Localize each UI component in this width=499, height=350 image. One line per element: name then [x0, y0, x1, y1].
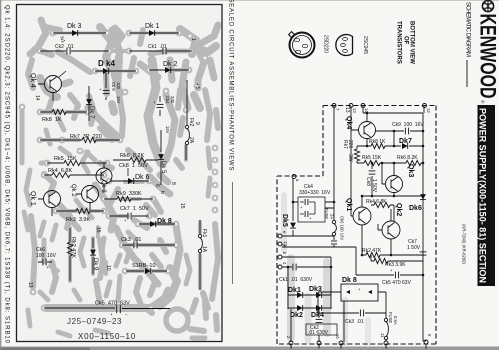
capacitor Ck2 (schematic): [316, 318, 323, 320]
rail y196: [362, 195, 423, 197]
svg-text:D k4: D k4: [98, 59, 115, 68]
scan edge line top: [0, 0, 499, 2]
svg-text:9: 9: [194, 122, 200, 125]
terminal 13: [349, 104, 353, 108]
svg-text:330+330 16V: 330+330 16V: [299, 190, 331, 196]
svg-text:Dk 3: Dk 3: [67, 23, 82, 30]
diode S1RB-10 (pcb): [126, 270, 167, 272]
wire pad7 bus: [333, 106, 335, 247]
svg-text:Rk2 47K: Rk2 47K: [70, 237, 76, 258]
terminal a: [292, 175, 296, 179]
resistor Rk2 (pcb): [69, 228, 71, 281]
transistor outline 2SC945 bottom view: [336, 35, 368, 56]
board boundary dashed: [277, 106, 436, 345]
svg-text:Dk 5: Dk 5: [160, 161, 166, 174]
rectifier Dk8 (schematic): [341, 284, 378, 301]
diode Dk6 (pcb): [110, 180, 149, 182]
svg-text:14: 14: [34, 95, 40, 101]
svg-text:Qk 1,4: 2SD220, Qk2,3: 2SC945: Qk 1,4: 2SD220, Qk2,3: 2SC945 (Q), Dk1~4…: [4, 5, 10, 344]
capacitor Ck5 (schematic): [356, 274, 423, 276]
resistor Rk4 (pcb): [44, 174, 104, 176]
pcb board outline: [17, 5, 223, 342]
wire Ck4 links: [293, 202, 334, 208]
svg-text:Dk 2: Dk 2: [163, 61, 178, 68]
svg-text:Rk5 15K: Rk5 15K: [362, 155, 382, 161]
svg-text:2SD220: 2SD220: [323, 35, 329, 53]
svg-text:S1RB–10: S1RB–10: [132, 263, 156, 269]
diode Dk7 (schematic): [394, 145, 423, 147]
svg-text:Ck 9: Ck 9: [111, 82, 116, 91]
pcb scan tint: [17, 5, 222, 341]
svg-text:220: 220: [347, 140, 353, 149]
svg-text:Rk8 1K: Rk8 1K: [42, 117, 62, 123]
transistor Qk1 (schematic): [353, 207, 371, 225]
svg-text:Qk1: Qk1: [345, 198, 352, 211]
capacitor Ck2: [66, 48, 68, 55]
svg-text:16V: 16V: [165, 126, 170, 134]
svg-text:KENWOOD: KENWOOD: [475, 14, 499, 99]
svg-text:1A: 1A: [201, 246, 207, 253]
svg-text:13: 13: [27, 282, 33, 288]
resistor Rk8 (schematic): [357, 145, 394, 147]
svg-text:Qk 2: Qk 2: [70, 184, 76, 197]
svg-text:3W: 3W: [347, 154, 353, 162]
terminal b: [278, 255, 282, 259]
svg-text:Ck3 .01: Ck3 .01: [121, 237, 141, 243]
svg-text:10: 10: [335, 334, 340, 339]
resistor Rk7 (pcb): [40, 139, 120, 141]
wire b rail: [282, 257, 331, 267]
svg-text:Dk4: Dk4: [311, 312, 324, 319]
wire Ck2 row: [40, 50, 109, 52]
capacitor Ck1 (schematic): [292, 264, 294, 271]
svg-text:J25–0749–23: J25–0749–23: [67, 317, 122, 326]
capacitor Ck5 (pcb): [44, 307, 170, 310]
resistor Rk3 (schematic): [371, 255, 423, 261]
transistor Qk3 (pcb): [96, 168, 112, 184]
svg-text:Qk 4: Qk 4: [29, 73, 36, 88]
svg-text:Qk3: Qk3: [407, 164, 414, 177]
diode Dk6 (schematic): [420, 194, 426, 200]
svg-text:330: 330: [170, 96, 175, 104]
svg-text:Qk 3: Qk 3: [100, 180, 106, 193]
svg-text:SEALED CIRCUIT ASSEMBLIES-PHAN: SEALED CIRCUIT ASSEMBLIES-PHANTOM VIEWS: [228, 0, 234, 171]
diode Dk1: [149, 30, 155, 36]
logo KENWOOD: [475, 0, 499, 104]
svg-text:Qk4: Qk4: [345, 116, 352, 129]
banner POWER SUPPLY(X00-1150-81) SECTION: [478, 105, 496, 286]
wire Dk4 row: [95, 70, 136, 72]
diode Dk4 (bridge): [316, 305, 322, 311]
wire Dk8 bottom: [343, 301, 345, 342]
svg-text:Rk7 3P 220: Rk7 3P 220: [70, 134, 102, 140]
transistor outline 2SD220 bottom view: [289, 32, 329, 58]
svg-text:100: 100: [116, 82, 121, 90]
svg-text:11: 11: [380, 333, 385, 338]
diode Dk5 (schematic): [290, 223, 296, 229]
svg-text:Dk5: Dk5: [281, 214, 288, 227]
svg-text:Ck9 100 16V: Ck9 100 16V: [392, 122, 424, 128]
svg-text:Rk6 8.2K: Rk6 8.2K: [397, 155, 418, 161]
resistor Rk4 (schematic): [371, 205, 394, 221]
svg-text:Ck6 100 16V: Ck6 100 16V: [340, 216, 345, 240]
wire Ck9-Dk7 link: [393, 131, 395, 146]
svg-text:Ck5 470 63V: Ck5 470 63V: [382, 280, 412, 286]
svg-text:Ck3 .01: Ck3 .01: [345, 319, 364, 325]
svg-text:b: b: [159, 191, 165, 194]
svg-text:0.5A: 0.5A: [393, 316, 398, 325]
fuse Fk2 (pcb): [186, 80, 187, 160]
svg-text:Ck8 1 50V: Ck8 1 50V: [119, 163, 148, 169]
svg-text:Dk2: Dk2: [290, 312, 303, 319]
svg-text:Dk 1: Dk 1: [145, 23, 160, 30]
resistor Rk5 (schematic): [364, 160, 380, 165]
svg-text:Rk2 47K: Rk2 47K: [362, 248, 382, 254]
terminal e: [278, 234, 282, 238]
svg-text:10: 10: [105, 265, 111, 271]
svg-text:X00–1150–10: X00–1150–10: [78, 332, 136, 341]
svg-text:Ck5 470 63V: Ck5 470 63V: [95, 301, 130, 307]
terminal 12: [423, 104, 427, 108]
diode Dk9 (pcb): [92, 238, 94, 274]
svg-text:1 50V: 1 50V: [371, 179, 377, 193]
diode Dk8 (pcb): [139, 223, 175, 225]
svg-text:1 50V: 1 50V: [407, 245, 421, 251]
wire Ck1 rail: [282, 266, 331, 268]
resistor Rk3 (pcb): [56, 210, 104, 212]
terminal 4: [278, 265, 282, 269]
capacitor Ck3 (pcb): [122, 244, 175, 246]
scan edge line left: [0, 0, 2, 350]
rail Rk5 Rk6: [357, 162, 423, 164]
terminal 14: [361, 104, 365, 108]
svg-text:Fk2: Fk2: [188, 118, 194, 127]
svg-text:Dk6: Dk6: [409, 205, 422, 212]
svg-text:Rk8 1K: Rk8 1K: [369, 139, 386, 145]
resistor Rk7 (schematic): [356, 146, 358, 163]
capacitor Ck7 (pcb): [109, 215, 149, 217]
diode Dk7 (pcb): [88, 86, 90, 121]
capacitor Ck8 (schematic): [371, 163, 373, 196]
svg-text:Ck2 .01: Ck2 .01: [55, 44, 74, 50]
svg-text:Ck4: Ck4: [165, 96, 170, 104]
svg-text:Rk6 8.2K: Rk6 8.2K: [120, 153, 144, 159]
svg-text:13: 13: [344, 107, 350, 113]
transistor Qk4 (schematic): [359, 122, 376, 139]
svg-text:16V: 16V: [116, 96, 121, 104]
diode Dk2 (bridge): [288, 307, 331, 309]
wire Dk8 left: [318, 292, 341, 313]
terminal g13: [278, 242, 282, 246]
svg-text:Dk 8: Dk 8: [342, 277, 357, 284]
wire top rail: [363, 106, 424, 113]
svg-text:+3: +3: [194, 83, 200, 89]
wire e rail: [282, 235, 334, 237]
pcb copper traces: [19, 20, 219, 338]
svg-text:TRANSISTORS: TRANSISTORS: [396, 21, 402, 64]
resistor Rk5 (pcb): [47, 162, 107, 164]
svg-text:16: 16: [95, 227, 101, 233]
svg-text:2SC945: 2SC945: [362, 36, 368, 54]
svg-text:.01 630V: .01 630V: [308, 330, 329, 336]
resistor Rk2 (schematic): [362, 254, 423, 256]
capacitor Ck1: [162, 48, 164, 55]
capacitor Ck9 (pcb): [105, 73, 107, 100]
wire Dk5 branch: [292, 178, 294, 236]
wire right bus: [423, 113, 426, 341]
terminal 7: [332, 104, 336, 108]
svg-text:2A: 2A: [330, 214, 335, 219]
svg-text:Rk3 3.9K: Rk3 3.9K: [66, 217, 90, 223]
fuse FUSE 0.5A (schematic): [384, 318, 387, 321]
resistor Rk6 (pcb): [113, 159, 158, 161]
svg-text:2A: 2A: [188, 137, 194, 144]
svg-text:Dk7: Dk7: [399, 138, 412, 145]
wire rail y247: [282, 247, 356, 275]
svg-text:Rk3 3.9K: Rk3 3.9K: [385, 262, 406, 268]
svg-text:SCHEMATIC DIAGRAM: SCHEMATIC DIAGRAM: [465, 2, 471, 57]
fuse Fk1 (pcb): [199, 220, 201, 290]
resistor Rk6 (schematic): [406, 160, 421, 165]
svg-text:Qk 1: Qk 1: [29, 191, 36, 206]
diode Dk2: [165, 67, 171, 73]
wire emitter Qk4: [366, 145, 369, 148]
diode Dk4: [103, 68, 109, 74]
wire Dk2 row: [149, 69, 189, 71]
svg-text:(KR-7200) (KR-6200): (KR-7200) (KR-6200): [462, 224, 467, 264]
bottom terminals: [289, 341, 293, 345]
wire Dk1 row: [129, 32, 179, 34]
svg-text:Ck1 .01 630V: Ck1 .01 630V: [279, 277, 313, 283]
wire Dk8 right: [378, 292, 386, 318]
svg-text:Rk5 15K: Rk5 15K: [54, 156, 77, 162]
svg-text:POWER SUPPLY(X00-1150- 81) SEC: POWER SUPPLY(X00-1150- 81) SECTION: [478, 108, 488, 283]
wire pad13 bus: [350, 106, 352, 216]
diode Dk3: [72, 30, 78, 36]
svg-text:Dk 9: Dk 9: [92, 258, 98, 271]
transistor Qk2 (schematic): [382, 221, 400, 239]
svg-text:12: 12: [426, 108, 431, 113]
svg-text:8: 8: [170, 182, 176, 185]
capacitor Ck4 (pcb): [159, 96, 161, 116]
diode Dk5 (pcb): [160, 130, 162, 185]
svg-text:1: 1: [190, 38, 196, 41]
svg-text:100 16V: 100 16V: [36, 253, 57, 259]
svg-text:Rk4 6.8K: Rk4 6.8K: [366, 199, 387, 205]
svg-text:Fk1: Fk1: [201, 229, 207, 238]
svg-text:Rk9 330K: Rk9 330K: [116, 191, 142, 197]
svg-text:Qk2: Qk2: [395, 203, 402, 216]
fuse FUSE 2A (schematic): [332, 220, 335, 223]
capacitor Ck3 (schematic): [318, 312, 386, 314]
svg-text:Dk 7: Dk 7: [88, 106, 94, 119]
capacitor Ck6 (schematic): [331, 240, 337, 242]
svg-text:Ck8: Ck8: [365, 177, 371, 186]
resistor Rk8 (pcb): [40, 111, 87, 113]
svg-text:FUSE: FUSE: [388, 312, 393, 323]
svg-text:Rk4 6.8K: Rk4 6.8K: [48, 168, 72, 174]
resistor Rk9 (pcb): [104, 198, 153, 200]
diode Dk1 (bridge): [288, 294, 331, 296]
transistor Qk3 (schematic): [386, 176, 403, 193]
scan bleed: [287, 258, 295, 338]
svg-text:Dk 6: Dk 6: [135, 174, 150, 181]
transistor Qk1 (pcb): [44, 191, 61, 208]
wire Dk3 row: [53, 32, 106, 34]
svg-text:13: 13: [352, 108, 357, 113]
capacitor Ck9 (schematic): [376, 130, 424, 132]
svg-text:OF: OF: [403, 36, 409, 45]
svg-text:15: 15: [179, 203, 185, 209]
diode Dk3 (bridge): [316, 292, 322, 298]
svg-text:Ck1 .01: Ck1 .01: [148, 44, 167, 50]
svg-text:Ck7 1 50V: Ck7 1 50V: [120, 206, 149, 212]
svg-text:Dk3: Dk3: [309, 286, 322, 293]
bridge verticals: [288, 267, 331, 342]
svg-text:Dk1: Dk1: [288, 287, 301, 294]
svg-text:Dk 8: Dk 8: [157, 218, 172, 225]
svg-text:6: 6: [154, 184, 160, 187]
scan edge band bottom: [0, 347, 499, 350]
wire Ck1 row: [129, 50, 192, 52]
transistor Qk4 (pcb): [45, 76, 62, 93]
transistor Qk2 (pcb): [82, 186, 99, 203]
